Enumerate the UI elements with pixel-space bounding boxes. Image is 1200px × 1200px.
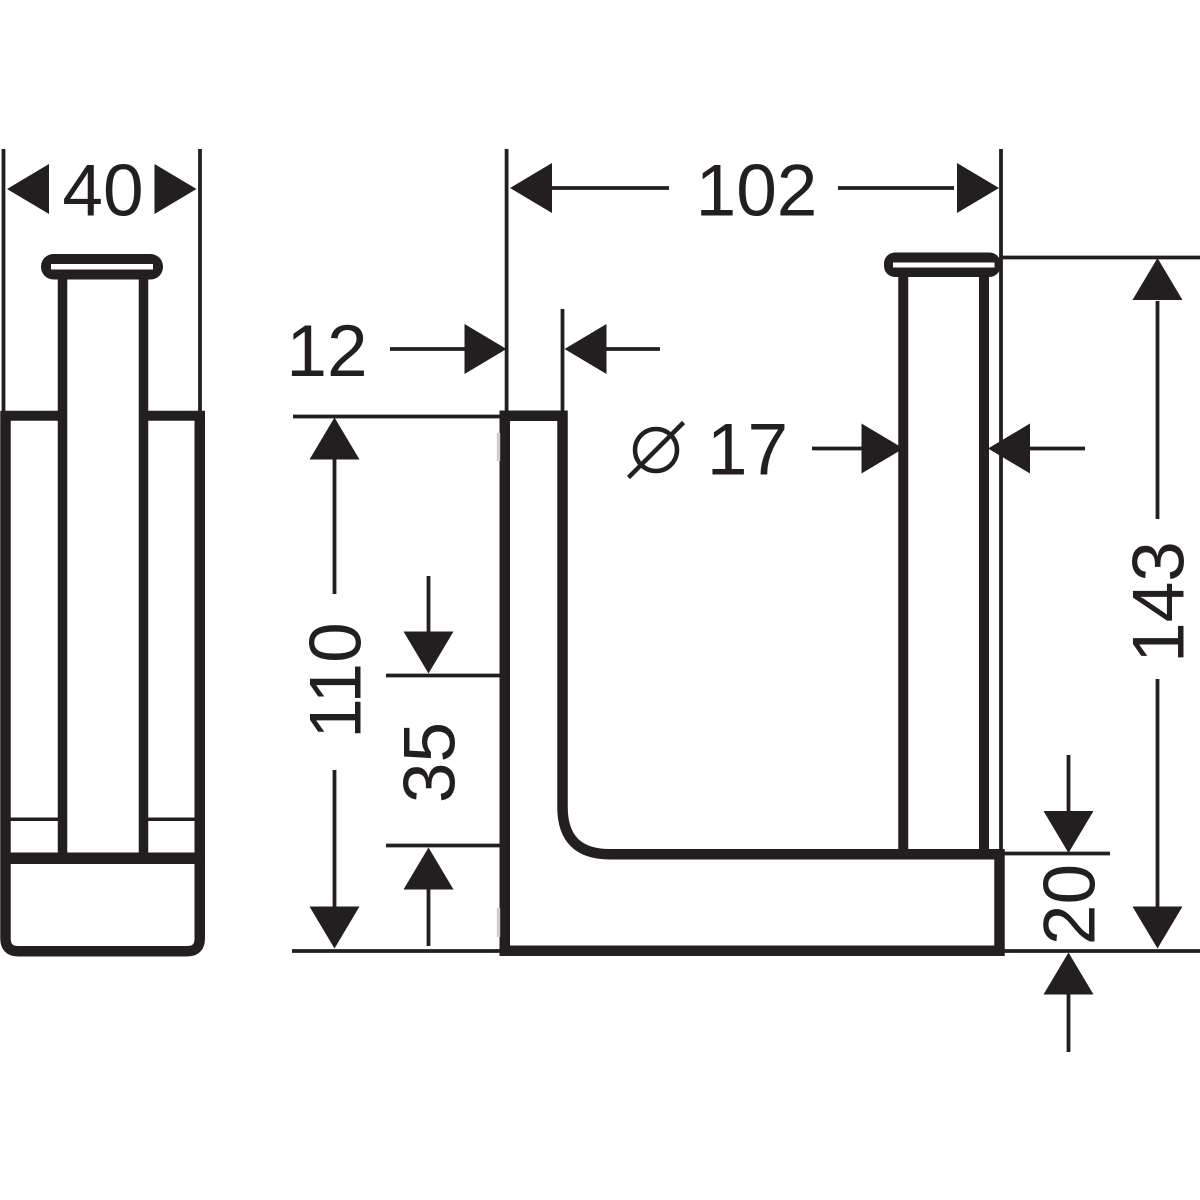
dim diameter 17 circle symbol [635,429,677,471]
side view: bracket top edge right segment [139,411,205,421]
dim 20 arrow up [1044,953,1094,995]
dim 12 line left [390,347,466,351]
dim 35 line lower [427,889,431,946]
dim 12 arrow pointing right [465,324,507,374]
dim 20 top reference line [1002,852,1110,856]
dim 110 arrow up [310,418,360,460]
dim 110 arrow down [310,907,360,949]
front view: post cap white slot [893,263,995,268]
side view: rod right line [139,278,149,853]
dim 143 label [1119,541,1200,663]
svg-text:110: 110 [296,622,377,738]
dim 143 arrow up [1133,258,1183,300]
svg-text:12: 12 [286,311,367,392]
front view: post left line [898,276,908,852]
dim 35 lower reference line [386,844,500,848]
dim 17 tail line left [812,447,862,451]
front view: extension line left of 102 dim [505,149,509,413]
plate screw hole notch lower [497,908,500,937]
side view: thick middle line [1,853,205,865]
side view: cap white slot [51,264,153,270]
dim 110 label [296,622,377,738]
svg-text:17: 17 [707,410,788,491]
svg-text:20: 20 [1030,864,1111,945]
front view: post top cap pill [884,253,1001,278]
svg-text:102: 102 [696,151,818,232]
dim 110 line lower [333,770,337,907]
dim 17 arrow pointing right [862,424,904,474]
dim 17 arrow pointing left [988,424,1030,474]
svg-text:143: 143 [1119,541,1200,663]
dim 40 arrow right [155,164,197,214]
dim 20 label [1030,864,1111,945]
dim 35 arrow down [404,632,454,674]
svg-text:35: 35 [390,722,471,803]
side view: bracket top edge left segment [1,411,68,421]
plate screw hole notch upper [497,433,500,461]
baseline extension right [1002,949,1200,953]
dim 20 arrow down [1044,811,1094,853]
dim 143 arrow down [1133,907,1183,949]
dim 143 top reference line [1000,256,1200,260]
dim 102 arrow right [957,163,999,213]
dim 143 line upper [1156,301,1160,519]
side view: rod left line [58,278,68,853]
side view: top cap pill [41,254,163,280]
dim 35 arrow up [404,848,454,890]
dim 17 tail line right [1028,447,1085,451]
dim 20 line upper [1067,755,1071,813]
dim 110 line upper [333,459,337,594]
dim 35 line upper [427,576,431,632]
dim 12 line right [606,347,660,351]
dim 102 line left [551,186,669,190]
dim 35 upper reference line [386,674,500,678]
dim 12 arrow pointing left [565,324,607,374]
side view: extension line left of 40 dim [2,149,6,413]
dim 102 arrow left [510,163,552,213]
side view: bracket outer outline [6,411,200,951]
side view: joint thin line left [11,818,59,822]
dim 102 line right [838,186,954,190]
dim 143 line lower [1156,679,1160,907]
dim 40 arrow left [7,164,49,214]
dim 12 extension line right [561,309,565,413]
dim 20 line lower [1067,994,1071,1052]
front view: post right line [979,276,989,852]
front view: extension line right of 102 dim [999,149,1003,851]
svg-text:40: 40 [62,151,143,232]
dim diameter 17 slash [629,423,684,478]
front view: wall plate and lower arm L-outline [505,416,1000,951]
side view: extension line right of 40 dim [198,149,202,413]
dim 110 top reference line [293,415,500,419]
dim 35 label [390,722,471,803]
side view: joint thin line right [148,818,195,822]
baseline extension left [292,949,500,953]
